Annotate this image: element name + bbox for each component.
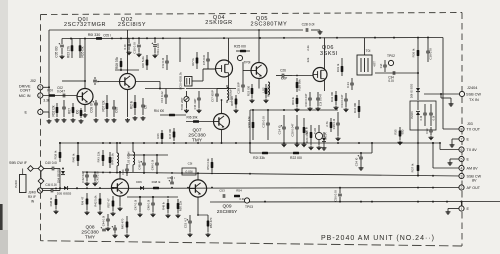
capacitor C02 <box>57 86 65 97</box>
wire Q04 gate <box>203 68 216 70</box>
diode D01 <box>410 83 421 100</box>
svg-text:C52 4.7: C52 4.7 <box>184 218 188 229</box>
connector diamond A <box>28 166 34 172</box>
label Q08 <box>81 225 99 241</box>
label Q01 <box>64 17 106 28</box>
svg-text:R49 Ik: R49 Ik <box>162 201 166 210</box>
svg-text:IS666: IS666 <box>410 111 414 119</box>
ground (R38) <box>54 210 59 214</box>
svg-text:C56 0.0I: C56 0.0I <box>334 190 338 202</box>
svg-text:R03 27k: R03 27k <box>67 46 71 58</box>
ground (Q08 emitter) <box>118 207 123 211</box>
wire Q01 base stub <box>72 80 86 82</box>
svg-text:C39: C39 <box>425 128 429 134</box>
resistor R38 <box>49 195 57 209</box>
svg-text:RI9 Ik: RI9 Ik <box>291 97 295 105</box>
capacitor C11 <box>141 98 147 115</box>
svg-text:4: 4 <box>461 166 463 170</box>
wire x60 <box>59 169 61 191</box>
svg-text:R48 Ik: R48 Ik <box>152 180 161 184</box>
capacitor C42 <box>81 171 89 183</box>
diode D06 <box>136 180 143 190</box>
resistor R50 <box>177 199 183 213</box>
svg-text:RI2 Ik: RI2 Ik <box>130 100 134 109</box>
svg-text:I00P: I00P <box>281 77 288 81</box>
label AF OUT (pin2) <box>467 186 481 190</box>
svg-text:J03: J03 <box>467 122 473 126</box>
svg-text:C28 0.0I: C28 0.0I <box>302 23 315 27</box>
label C06 <box>103 34 111 38</box>
connector J03 pin2 <box>459 185 464 190</box>
resistor R14 <box>154 109 186 116</box>
label MIC IN <box>19 94 31 98</box>
junction dots (rail197) <box>139 196 154 198</box>
svg-text:R42 5.6k: R42 5.6k <box>94 195 98 207</box>
wire x418 lower <box>417 130 419 160</box>
wire Q02 base <box>97 81 119 83</box>
wire Q05 emitter <box>258 79 260 89</box>
svg-text:RI7 Ik: RI7 Ik <box>191 58 195 66</box>
svg-text:0.0I: 0.0I <box>123 44 127 49</box>
ground <box>62 118 67 122</box>
label Q05 <box>251 16 288 28</box>
resistor R01 on bus <box>88 33 102 40</box>
wire Q06 source <box>324 82 326 92</box>
ground (C44b) <box>113 234 118 238</box>
svg-text:8: 8 <box>461 127 463 131</box>
electrolytic C45 <box>101 226 106 231</box>
svg-text:R37 Ik: R37 Ik <box>411 163 415 172</box>
resistor R32 <box>330 91 337 105</box>
FET Q06 <box>313 68 327 82</box>
svg-text:R26 3.3k: R26 3.3k <box>305 131 309 143</box>
svg-text:3: 3 <box>39 86 41 90</box>
label J2401 <box>28 191 36 204</box>
ground <box>336 137 341 141</box>
connector J03 pin3 <box>459 173 464 178</box>
svg-text:R57 47: R57 47 <box>107 198 111 208</box>
ground <box>308 107 313 111</box>
title PB-2040 AM UNIT <box>321 235 435 242</box>
wire Q02 emitter <box>127 90 129 118</box>
plug P2401 <box>14 169 29 193</box>
svg-text:0.00I: 0.00I <box>185 170 192 174</box>
resistor R37 <box>411 160 420 177</box>
svg-text:4I7T: 4I7T <box>373 61 377 67</box>
ground (R52) <box>206 233 211 237</box>
svg-text:C44 0.0I: C44 0.0I <box>102 215 106 226</box>
transistor Q08 <box>111 179 128 196</box>
svg-text:R28 68k: R28 68k <box>298 79 302 91</box>
svg-text:C05 I00: C05 I00 <box>55 46 59 57</box>
svg-text:C29 0.0I: C29 0.0I <box>332 118 336 129</box>
ground <box>133 116 138 120</box>
capacitor C49 <box>151 155 159 174</box>
resistor R08 <box>115 57 122 70</box>
svg-text:C30 0.0I: C30 0.0I <box>133 42 137 54</box>
svg-text:6: 6 <box>461 148 463 152</box>
resistor R43 <box>97 150 105 166</box>
wire y70 <box>115 69 139 71</box>
svg-text:J2404: J2404 <box>467 86 477 90</box>
svg-text:CONT: CONT <box>20 88 31 92</box>
svg-text:L03 I00uH: L03 I00uH <box>127 152 131 165</box>
svg-text:XC0I 455B.5k: XC0I 455B.5k <box>179 72 183 90</box>
svg-text:C3I 0.047: C3I 0.047 <box>319 93 323 106</box>
svg-text:C43 0.0I: C43 0.0I <box>95 171 99 183</box>
thermistor TH01 <box>313 125 323 145</box>
capacitor C41 <box>42 183 60 192</box>
capacitor C29 <box>332 112 340 136</box>
svg-text:C5I: C5I <box>188 162 193 166</box>
transistor Q01 <box>77 89 93 105</box>
svg-text:R23 I30: R23 I30 <box>247 86 251 97</box>
svg-text:TX IN: TX IN <box>469 98 479 102</box>
resistor R21 <box>253 152 268 160</box>
svg-text:2.2k: 2.2k <box>306 45 310 51</box>
crystal filter XC01 <box>179 72 193 90</box>
svg-text:900: 900 <box>401 129 405 134</box>
resistor R05 <box>79 39 85 59</box>
ground <box>141 116 146 120</box>
svg-text:C20 30P: C20 30P <box>237 82 241 93</box>
ground (C16) <box>197 109 202 113</box>
resistor R12 <box>130 95 137 115</box>
connector J03 pin7 <box>459 136 464 141</box>
capacitor C25 <box>262 110 270 140</box>
resistor R19 <box>291 95 298 107</box>
capacitor C40 <box>44 161 61 171</box>
svg-text:TX OUT: TX OUT <box>467 127 481 131</box>
connector J03 pin5 <box>459 156 464 161</box>
svg-text:R05 I5k: R05 I5k <box>81 46 85 57</box>
svg-text:J02: J02 <box>30 79 36 83</box>
wire filter in <box>136 82 185 90</box>
capacitor C14 <box>160 89 168 105</box>
svg-text:C28 0.047: C28 0.047 <box>291 123 295 136</box>
label Q09 <box>217 204 238 216</box>
resistor R45 <box>121 216 129 233</box>
resistor R24 <box>265 84 271 98</box>
ground (C12) <box>127 51 132 55</box>
wire pin4 feed <box>432 142 459 168</box>
svg-text:C50 I: C50 I <box>167 176 174 180</box>
ground (C28) <box>318 30 323 34</box>
svg-text:C08: C08 <box>115 107 119 113</box>
svg-text:R07 I2k: R07 I2k <box>102 100 106 111</box>
svg-text:C46: C46 <box>121 169 125 175</box>
label Q07 <box>188 128 206 144</box>
ground <box>295 143 300 147</box>
label Q02 <box>118 17 146 28</box>
capacitor C48b <box>147 197 155 212</box>
capacitor C48 electrolytic <box>138 155 146 174</box>
svg-text:C47 0.0I: C47 0.0I <box>134 199 138 210</box>
wire x418 <box>417 62 419 85</box>
wire pin1 gnd <box>448 209 459 211</box>
svg-text:R34 I00: R34 I00 <box>353 103 357 114</box>
ground (C39) <box>429 136 434 140</box>
ground <box>94 118 99 122</box>
wire Q09 emitter <box>197 197 199 215</box>
ground <box>344 108 349 112</box>
svg-text:P240I: P240I <box>14 180 18 188</box>
wire Q02 collector <box>127 30 129 74</box>
connector diamond B <box>38 166 44 172</box>
resistor R48 <box>152 180 161 189</box>
capacitor C28 (series on top wire) <box>302 23 320 32</box>
wire Q04 source <box>217 77 236 89</box>
svg-text:3: 3 <box>461 174 463 178</box>
svg-text:AM 8V: AM 8V <box>467 166 479 170</box>
wire Q07 collector <box>221 99 223 113</box>
wire x372 up <box>371 142 373 153</box>
label TX 8V (pin6) <box>467 148 478 152</box>
wire pin1 drop <box>461 201 463 206</box>
inductor L01 <box>227 85 233 103</box>
svg-text:D05 ISI555: D05 ISI555 <box>57 192 72 196</box>
svg-text:C09 I0: C09 I0 <box>90 103 94 113</box>
capacitor C24 electrolytic <box>278 115 286 142</box>
svg-text:C4I 0.0I: C4I 0.0I <box>45 183 56 187</box>
svg-text:D0I IS I555: D0I IS I555 <box>410 83 414 98</box>
svg-text:RX IF: RX IF <box>28 195 36 199</box>
capacitor C04 <box>62 100 66 117</box>
ground <box>55 118 60 122</box>
resistor R47 <box>168 128 175 141</box>
capacitor C32 <box>316 92 322 106</box>
svg-text:2.7k: 2.7k <box>325 121 329 127</box>
svg-text:C25 0.0I: C25 0.0I <box>262 116 266 128</box>
resistor R35 <box>394 127 405 140</box>
svg-text:TP0I: TP0I <box>244 61 251 65</box>
wire q07 links <box>160 104 186 122</box>
svg-text:22k: 22k <box>306 57 310 62</box>
svg-text:R25 I00: R25 I00 <box>234 45 246 49</box>
label E (pinI) <box>467 207 470 211</box>
ground <box>176 214 181 218</box>
svg-text:CI7 I00P: CI7 I00P <box>211 90 215 102</box>
ground (C43) <box>93 182 98 186</box>
transistor Q05 <box>251 63 267 79</box>
ground <box>316 107 321 111</box>
ground <box>105 118 110 122</box>
wire right vertical bus <box>442 38 444 130</box>
capacitor C03 electrolytic <box>152 38 160 54</box>
resistor R46 <box>156 130 163 142</box>
ground (pin1) <box>446 210 451 214</box>
resistor R22 <box>290 152 302 160</box>
svg-text:J240I: J240I <box>28 191 36 195</box>
ground <box>334 106 339 110</box>
svg-text:0.0I: 0.0I <box>432 115 436 120</box>
label J02 <box>30 79 36 83</box>
wire Q01 emitter <box>84 105 86 113</box>
svg-text:C03 220: C03 220 <box>156 43 160 55</box>
wire rail197 <box>127 196 178 198</box>
svg-text:PB-2040 AM UNIT (NO.24··): PB-2040 AM UNIT (NO.24··) <box>321 235 435 242</box>
capacitor C12 stub <box>123 38 131 50</box>
svg-text:TP02: TP02 <box>387 54 395 58</box>
capacitor C53 <box>214 189 225 198</box>
wire Q08 collector <box>119 171 121 179</box>
label J2404 <box>466 86 481 102</box>
wire Q01 collector <box>84 38 86 88</box>
resistor R02 <box>52 103 59 117</box>
inductor L02 <box>262 82 270 95</box>
wire J2404 gnd stub <box>441 94 451 102</box>
ground <box>83 113 88 117</box>
svg-text:TX 8V: TX 8V <box>467 148 478 152</box>
inductor L03 <box>127 143 135 172</box>
svg-text:R22 I00: R22 I00 <box>290 156 302 160</box>
resistor R30 <box>303 118 309 142</box>
wire R21/R22 rail <box>250 152 372 154</box>
svg-text:D04 ISI555: D04 ISI555 <box>57 169 61 183</box>
wire comb top <box>250 109 338 153</box>
ground (C52) <box>188 233 193 237</box>
svg-text:R39 Ik: R39 Ik <box>54 150 58 159</box>
resistor R28 <box>296 78 302 92</box>
svg-text:7: 7 <box>461 137 463 141</box>
svg-text:I00: I00 <box>76 110 80 115</box>
ground (J2404) <box>449 102 454 106</box>
svg-text:R44 5.6k: R44 5.6k <box>111 153 115 165</box>
connector J03 pin8 <box>459 126 464 131</box>
ground (C03) <box>153 54 158 58</box>
wire Q05 base <box>243 62 251 80</box>
resistor R39 <box>54 142 62 162</box>
connector J02 pin2 <box>38 93 43 98</box>
svg-text:L02: L02 <box>262 87 266 92</box>
FET Q04 <box>216 60 233 77</box>
svg-text:R46: R46 <box>156 133 160 139</box>
wire Q07 emitter <box>221 130 223 144</box>
wire pin5 gnd <box>450 159 459 161</box>
IF transformer T01 <box>357 49 377 75</box>
inductor L04 <box>116 142 119 172</box>
wire Q04 drain <box>228 38 230 60</box>
label E (pin7) <box>467 137 470 141</box>
diode D04 <box>57 169 66 184</box>
capacitor C07 <box>93 77 97 85</box>
resistor R06 <box>68 103 75 117</box>
svg-text:C54 I0: C54 I0 <box>355 157 359 166</box>
svg-text:0.0I: 0.0I <box>388 79 393 83</box>
capacitor C54 electrolytic <box>355 152 363 166</box>
label TX OUT (pin8) <box>467 127 481 131</box>
wire J02-2 base feed <box>43 95 77 97</box>
svg-text:C53: C53 <box>219 189 225 193</box>
svg-text:R38 Ik: R38 Ik <box>49 197 53 206</box>
wire AGC long <box>82 172 461 176</box>
ground <box>98 211 103 215</box>
ground <box>138 213 143 217</box>
ground <box>166 214 171 218</box>
svg-text:Q09: Q09 <box>222 204 231 210</box>
ground (C42) <box>85 182 90 186</box>
svg-text:C38 0.0I: C38 0.0I <box>429 48 433 60</box>
resistor R36 <box>412 38 420 62</box>
ground <box>125 118 130 122</box>
svg-text:CI5 0.0I: CI5 0.0I <box>202 55 206 65</box>
wire AF long <box>40 188 461 189</box>
transistor Q02 <box>120 74 136 90</box>
resistor R34 <box>353 100 360 118</box>
wire Q08 row <box>108 213 120 215</box>
svg-text:R36 Ik: R36 Ik <box>412 48 416 57</box>
resistor R49 <box>162 199 170 213</box>
wire Q06 drain <box>324 37 326 67</box>
capacitor C30 stub <box>133 38 141 53</box>
junction dots (AF line) <box>55 187 434 190</box>
capacitor C15 <box>202 52 210 69</box>
label R22b <box>306 57 310 62</box>
svg-text:R50 22k: R50 22k <box>179 200 183 211</box>
svg-text:R35: R35 <box>394 129 398 135</box>
svg-text:R40 Ik: R40 Ik <box>72 153 76 162</box>
junction dots (output line) <box>264 201 463 203</box>
svg-text:R53 3.3k: R53 3.3k <box>206 158 210 170</box>
capacitor C17 <box>211 89 219 103</box>
wire B+ bus <box>62 38 443 39</box>
svg-text:CI4 0.22: CI4 0.22 <box>160 91 164 103</box>
label DRIVE CONT <box>19 85 31 93</box>
resistor R17 <box>191 52 198 69</box>
capacitor C47 <box>134 197 142 212</box>
wire x250 drop <box>249 142 251 153</box>
label 8V (pin3) <box>472 179 477 183</box>
svg-text:R0?: R0? <box>68 108 72 114</box>
test point TP01 <box>237 55 250 64</box>
svg-text:TC0I 20P: TC0I 20P <box>180 98 184 111</box>
capacitor C56 (on output line) <box>334 187 342 203</box>
wire mid bus <box>60 143 459 150</box>
resistor R03 <box>67 39 74 59</box>
svg-text:R4I 47: R4I 47 <box>81 196 85 205</box>
svg-text:I: I <box>40 110 41 114</box>
svg-text:2SCI8I5Y: 2SCI8I5Y <box>118 22 146 28</box>
ground (R35) <box>398 141 403 145</box>
svg-text:2SKI9GR: 2SKI9GR <box>205 20 232 26</box>
ground (C30) <box>137 53 142 57</box>
ground <box>317 146 322 150</box>
svg-text:CII: CII <box>144 105 148 109</box>
shield box <box>410 101 436 130</box>
ground <box>79 119 84 123</box>
svg-text:0.33: 0.33 <box>346 82 350 88</box>
capacitor C33 <box>340 93 348 107</box>
wire top inner-box edge <box>49 29 303 31</box>
wire output long <box>210 201 500 204</box>
wire T01 top <box>364 38 366 55</box>
svg-text:S9B CW IF: S9B CW IF <box>9 161 28 165</box>
svg-text:5: 5 <box>461 157 463 161</box>
svg-text:CI6 39P: CI6 39P <box>193 99 197 110</box>
wire Q06 gate feed <box>292 75 313 77</box>
ground (C54) <box>359 166 364 170</box>
capacitor C50 electrolytic <box>167 176 174 188</box>
ground (J02) <box>47 119 52 123</box>
resistor R01b <box>43 89 55 103</box>
svg-text:RI8 I20: RI8 I20 <box>230 96 234 106</box>
connector J03 pinI <box>459 206 464 211</box>
transistor Q09 <box>189 180 206 197</box>
wire Q09 collector <box>197 172 199 180</box>
svg-text:0.0I: 0.0I <box>419 115 423 120</box>
capacitor C46 <box>121 164 129 176</box>
label E (pin5) <box>467 157 470 161</box>
